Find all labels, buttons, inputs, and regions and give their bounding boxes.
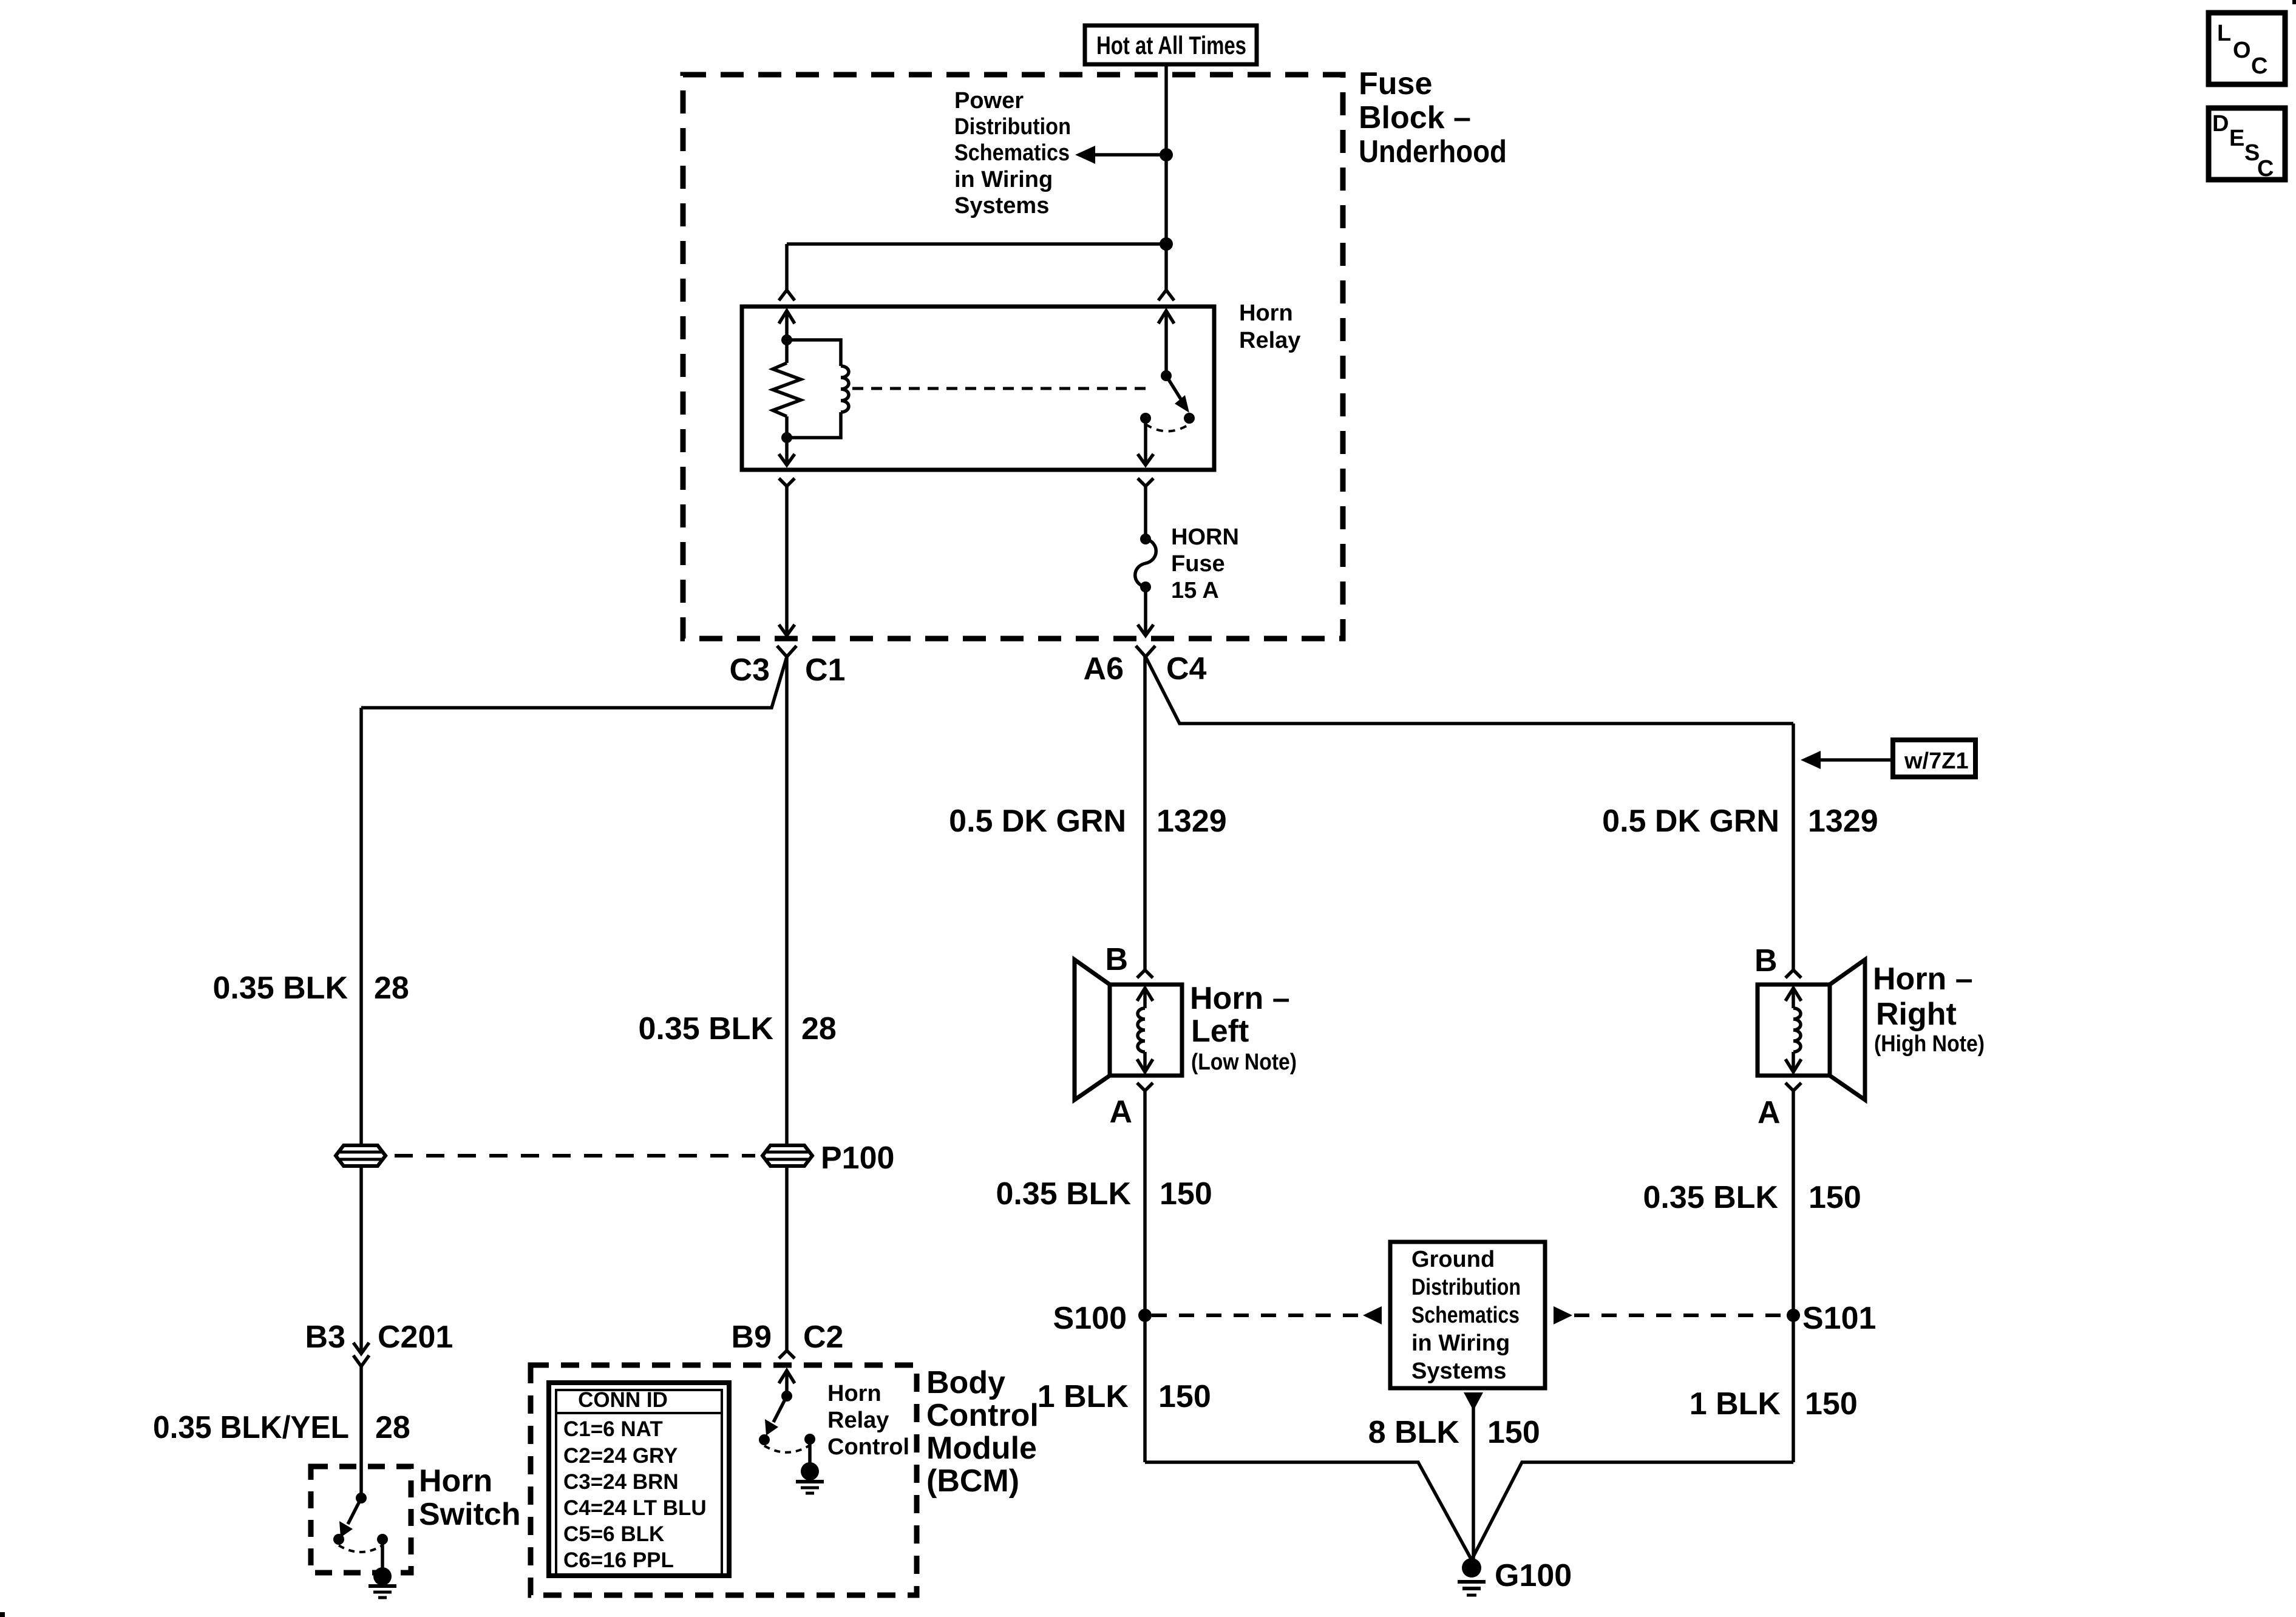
svg-text:Underhood: Underhood	[1359, 134, 1507, 169]
Hot at All Times box	[1085, 25, 1257, 64]
svg-text:C201: C201	[378, 1320, 453, 1355]
svg-text:C6=16 PPL: C6=16 PPL	[563, 1548, 674, 1572]
wire C1 vertical to P100	[785, 657, 789, 1145]
wire fuse to connector C4	[1138, 587, 1153, 636]
node relay coil bottom dot	[781, 432, 792, 443]
inductor horn left voice coil with pin arrows	[1137, 988, 1153, 1072]
label wire 0.35 BLK 150 horn left	[996, 1176, 1212, 1212]
terminal splay horn right bottom	[1785, 1083, 1801, 1091]
svg-text:150: 150	[1805, 1386, 1858, 1422]
svg-text:B9: B9	[732, 1320, 772, 1355]
wire dashed S100 to ground box with arrow	[1152, 1306, 1382, 1324]
svg-text:(BCM): (BCM)	[926, 1463, 1019, 1499]
svg-text:Control: Control	[926, 1398, 1039, 1433]
node BCM contact left	[759, 1434, 770, 1445]
svg-text:0.35 BLK/YEL: 0.35 BLK/YEL	[153, 1410, 349, 1445]
svg-text:D: D	[2212, 111, 2229, 137]
svg-text:Systems: Systems	[1411, 1358, 1506, 1384]
wire relay output to fuse	[1144, 486, 1147, 539]
svg-text:Fuse: Fuse	[1171, 551, 1225, 577]
svg-text:in Wiring: in Wiring	[1411, 1331, 1510, 1356]
svg-text:CONN ID: CONN ID	[578, 1388, 668, 1412]
BCM dashed box	[531, 1365, 917, 1595]
wire left branch to C201	[359, 1166, 363, 1354]
svg-text:Ground: Ground	[1411, 1247, 1495, 1272]
svg-text:Switch: Switch	[419, 1497, 521, 1532]
svg-text:in Wiring: in Wiring	[954, 167, 1053, 192]
svg-text:0.5 DK GRN: 0.5 DK GRN	[1602, 804, 1779, 839]
wire A6 vertical to horn left	[1143, 657, 1147, 970]
pin arrow relay bottom-left inside	[779, 438, 795, 465]
terminal splay relay top-left	[779, 290, 795, 300]
svg-text:0.5 DK GRN: 0.5 DK GRN	[949, 804, 1126, 839]
ground distribution schematics box	[1390, 1242, 1545, 1388]
svg-text:A6: A6	[1084, 651, 1124, 686]
svg-text:C: C	[2257, 156, 2274, 181]
wire horn left to S100	[1143, 1091, 1147, 1462]
svg-text:C4: C4	[1166, 651, 1207, 686]
label wire 0.35 BLK 28 center branch	[638, 1011, 836, 1046]
svg-text:Horn: Horn	[419, 1463, 492, 1499]
node horn switch contact left	[333, 1534, 344, 1545]
pin arrow relay top-right inside	[1158, 311, 1174, 376]
terminal splay horn left bottom	[1137, 1083, 1153, 1091]
svg-text:28: 28	[801, 1011, 837, 1046]
svg-text:Horn –: Horn –	[1873, 961, 1973, 997]
svg-text:B: B	[1105, 942, 1128, 977]
DESC box	[2209, 108, 2285, 181]
horn left speaker symbol	[1075, 960, 1182, 1100]
svg-text:1 BLK: 1 BLK	[1690, 1386, 1781, 1422]
node relay coil top dot	[781, 334, 792, 345]
label wire 0.35 BLK 150 horn right	[1643, 1180, 1861, 1215]
node junction dot lower	[1160, 237, 1173, 251]
wire dashed mechanical link coil to contacts	[852, 387, 1150, 390]
wire dashed ground box to S101 with arrow	[1554, 1306, 1787, 1324]
label wire 0.35 BLK/YEL 28	[153, 1410, 410, 1445]
CONN ID table	[549, 1383, 729, 1576]
svg-text:C4=24 LT BLU: C4=24 LT BLU	[563, 1496, 707, 1520]
terminal splay relay bottom-right	[1138, 478, 1153, 486]
fuse block - underhood dashed box	[683, 75, 1343, 639]
wire arrow to Power Distribution Schematics	[1075, 146, 1166, 164]
svg-text:O: O	[2233, 38, 2251, 63]
svg-text:150: 150	[1487, 1415, 1540, 1450]
wire horn right to S101	[1792, 1091, 1795, 1462]
svg-text:C5=6 BLK: C5=6 BLK	[563, 1522, 664, 1546]
svg-text:8 BLK: 8 BLK	[1368, 1415, 1460, 1450]
svg-text:w/7Z1: w/7Z1	[1904, 748, 1969, 774]
svg-text:S100: S100	[1053, 1301, 1127, 1336]
switch relay armature	[1161, 370, 1189, 413]
node relay contact right dot	[1184, 413, 1195, 424]
terminal splay horn left top	[1137, 970, 1153, 978]
svg-text:B3: B3	[305, 1320, 345, 1355]
LOC box	[2209, 13, 2285, 84]
svg-text:(Low Note): (Low Note)	[1191, 1049, 1297, 1075]
node BCM contact right	[804, 1434, 815, 1445]
svg-text:Hot at All Times: Hot at All Times	[1096, 31, 1246, 59]
resistor relay coil suppression	[773, 340, 801, 438]
svg-text:C1=6 NAT: C1=6 NAT	[563, 1417, 663, 1441]
svg-text:C1: C1	[805, 653, 845, 688]
svg-text:Module: Module	[926, 1431, 1037, 1466]
svg-text:0.35 BLK: 0.35 BLK	[996, 1176, 1131, 1212]
svg-text:0.35 BLK: 0.35 BLK	[638, 1011, 773, 1046]
svg-text:G100: G100	[1495, 1558, 1572, 1593]
wire right ground bus	[1472, 1462, 1793, 1559]
svg-text:E: E	[2229, 126, 2244, 151]
ground horn switch internal	[369, 1539, 396, 1598]
wire hot feed vertical	[1164, 64, 1168, 290]
ground G100	[1458, 1558, 1486, 1595]
label Horn - Left (Low Note)	[1190, 981, 1297, 1075]
pin arrow relay bottom-right inside	[1138, 418, 1153, 465]
wire left ground bus	[1145, 1462, 1471, 1559]
w/7Z1 callout box and arrow	[1801, 740, 1975, 777]
page corner speck top right	[2292, 0, 2296, 4]
svg-text:B: B	[1754, 943, 1778, 978]
svg-text:Right: Right	[1876, 997, 1957, 1032]
svg-text:1329: 1329	[1808, 804, 1878, 839]
terminal splay relay top-right	[1158, 290, 1174, 300]
svg-text:Schematics: Schematics	[954, 140, 1070, 166]
svg-text:Schematics: Schematics	[1411, 1303, 1520, 1328]
wire ground box down arrow	[1464, 1392, 1483, 1560]
svg-text:Body: Body	[926, 1365, 1005, 1400]
fuse HORN 15A	[1135, 534, 1156, 592]
connector A6/C4 splay	[1136, 646, 1155, 657]
switch horn switch armature	[339, 1493, 367, 1537]
wire dashed BCM throw arc	[764, 1445, 810, 1453]
svg-text:HORN: HORN	[1171, 524, 1239, 550]
svg-text:Horn: Horn	[1239, 300, 1293, 326]
label Horn Switch	[419, 1463, 521, 1532]
svg-text:Left: Left	[1191, 1014, 1249, 1049]
wire C4 diagonal branch	[1146, 657, 1793, 724]
terminal splay relay bottom-left	[779, 478, 795, 486]
label wire 8 BLK 150	[1368, 1415, 1540, 1450]
svg-text:Distribution: Distribution	[1411, 1275, 1521, 1300]
ground BCM internal	[796, 1439, 824, 1493]
svg-text:Horn –: Horn –	[1190, 981, 1290, 1016]
svg-text:A: A	[1758, 1095, 1781, 1130]
connector C3/C1 splay	[777, 646, 796, 657]
wire dashed P100 link	[395, 1154, 755, 1158]
splice S100	[1138, 1309, 1152, 1322]
page corner speck bottom left	[0, 1612, 5, 1617]
wire center branch to BCM	[785, 1166, 789, 1351]
wire branch horizontal to relay left leg	[787, 242, 1166, 246]
svg-text:C: C	[2251, 53, 2267, 79]
wire right branch vertical to horn right	[1792, 724, 1795, 970]
svg-text:150: 150	[1160, 1176, 1212, 1212]
svg-text:Distribution: Distribution	[954, 114, 1071, 140]
wire C201 to horn switch	[359, 1366, 363, 1498]
splice S101	[1787, 1309, 1800, 1322]
svg-text:Power: Power	[954, 88, 1024, 114]
pin arrow BCM top inside	[779, 1371, 795, 1396]
label wire 1 BLK 150 right	[1690, 1386, 1858, 1422]
inductor horn right voice coil with pin arrows	[1785, 988, 1801, 1072]
svg-text:150: 150	[1158, 1379, 1211, 1414]
inductor relay coil	[787, 340, 849, 438]
node horn switch contact right	[377, 1534, 388, 1545]
label Horn - Right (High Note)	[1873, 961, 1985, 1057]
label Body Control Module (BCM)	[926, 1365, 1039, 1499]
horn switch dashed box	[311, 1466, 411, 1573]
connector P100 pass-through left	[336, 1145, 385, 1166]
wire dashed contact throw arc	[1146, 424, 1189, 432]
svg-text:C2=24 GRY: C2=24 GRY	[563, 1444, 678, 1468]
svg-text:28: 28	[374, 971, 409, 1006]
svg-text:C3=24 BRN: C3=24 BRN	[563, 1470, 679, 1494]
svg-text:1329: 1329	[1156, 804, 1227, 839]
svg-text:Fuse: Fuse	[1359, 66, 1432, 101]
wire left branch vertical upper	[359, 708, 363, 1145]
label wire 0.5 DK GRN 1329 left	[949, 804, 1227, 839]
svg-text:S101: S101	[1802, 1301, 1876, 1336]
svg-text:C2: C2	[803, 1320, 843, 1355]
connector C201 double chevron	[353, 1343, 369, 1366]
wire relay leg to connector C1	[779, 486, 795, 636]
label Horn Relay	[1239, 300, 1300, 353]
svg-text:Systems: Systems	[954, 193, 1049, 219]
svg-text:C3: C3	[730, 653, 770, 688]
label HORN Fuse 15 A	[1171, 524, 1239, 603]
switch BCM horn relay control driver	[765, 1391, 792, 1436]
label wire 0.35 BLK 28 left branch	[212, 971, 409, 1006]
svg-text:Block –: Block –	[1359, 100, 1471, 135]
relay K horn relay box	[742, 307, 1214, 470]
horn right speaker symbol	[1758, 960, 1865, 1100]
label wire 0.5 DK GRN 1329 right	[1602, 804, 1878, 839]
wire dashed horn switch throw arc	[339, 1545, 382, 1552]
svg-text:A: A	[1109, 1094, 1132, 1130]
label Horn Relay Control	[827, 1381, 909, 1460]
pin arrow relay top-left inside	[779, 311, 795, 340]
wire relay left leg upper	[785, 244, 789, 290]
svg-text:L: L	[2217, 21, 2231, 46]
svg-text:15 A: 15 A	[1171, 578, 1219, 603]
label Power Distribution Schematics in Wiring Systems	[954, 88, 1071, 219]
label wire 1 BLK 150 left	[1038, 1379, 1211, 1414]
terminal splay horn right top	[1785, 970, 1801, 978]
node relay contact left dot	[1140, 413, 1151, 424]
svg-text:Relay: Relay	[1239, 328, 1300, 353]
svg-text:(High Note): (High Note)	[1874, 1031, 1985, 1057]
terminal splay BCM top	[779, 1351, 795, 1358]
svg-text:0.35 BLK: 0.35 BLK	[1643, 1180, 1778, 1215]
svg-text:Horn: Horn	[827, 1381, 881, 1406]
svg-text:P100: P100	[821, 1141, 894, 1176]
svg-text:Control: Control	[827, 1434, 909, 1460]
node junction dot upper	[1160, 148, 1173, 161]
svg-text:Relay: Relay	[827, 1408, 889, 1433]
connector P100 pass-through right	[763, 1145, 812, 1166]
svg-text:1 BLK: 1 BLK	[1038, 1379, 1129, 1414]
wire C3 diagonal branch	[361, 657, 787, 708]
svg-text:0.35 BLK: 0.35 BLK	[212, 971, 348, 1006]
svg-text:150: 150	[1809, 1180, 1861, 1215]
svg-text:28: 28	[375, 1410, 410, 1445]
label Fuse Block - Underhood	[1359, 66, 1507, 169]
